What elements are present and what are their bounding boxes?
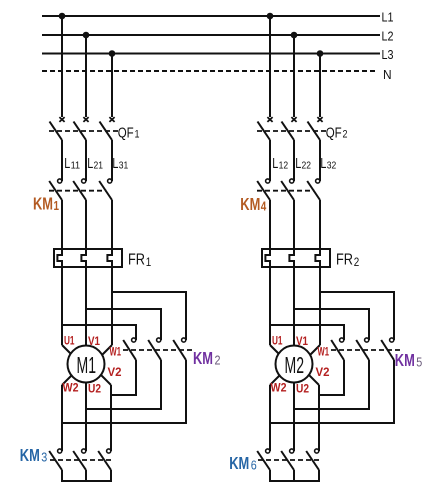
svg-text:M1: M1	[77, 352, 97, 378]
circuit breaker QF1 pole 3 blade	[100, 122, 113, 141]
svg-text:W1: W1	[318, 345, 330, 359]
bus line N (neutral, dashed)	[42, 70, 378, 72]
contactor KM5 pole 2 fixed contact circle	[365, 338, 369, 342]
svg-text:U2: U2	[296, 382, 309, 396]
label KM4	[240, 194, 266, 214]
wire KM4 pole 2 to FR2 heater 2	[293, 200, 295, 249]
svg-text:FR: FR	[128, 252, 145, 269]
wire KM6 pole 3 to star bar	[318, 470, 320, 481]
contactor KM4 pole 2 fixed contact circle	[290, 179, 294, 183]
svg-text:KM: KM	[229, 453, 249, 473]
wire KM5 pole 1 to motor terminal V2	[319, 360, 344, 395]
contactor KM5 pole 1 blade	[331, 340, 344, 360]
svg-text:QF: QF	[118, 125, 134, 142]
circuit breaker QF2 pole 3 blade	[308, 122, 321, 141]
contactor KM4 pole 2 blade	[281, 181, 294, 200]
circuit breaker QF1 pole 2 blade	[74, 122, 87, 141]
contactor KM5 pole 1 fixed contact circle	[340, 338, 344, 342]
wire QF2 pole 2 to KM4 pole 2	[293, 140, 295, 181]
svg-text:V2: V2	[108, 365, 122, 379]
wire KM4 pole 1 to FR2 heater 1	[269, 200, 271, 249]
svg-text:11: 11	[71, 161, 81, 172]
svg-text:1: 1	[146, 255, 152, 269]
svg-text:12: 12	[279, 161, 289, 172]
terminal label L32	[320, 155, 336, 172]
contactor KM6 pole 2 fixed contact circle	[290, 449, 294, 453]
svg-text:5: 5	[416, 355, 422, 370]
motor M1 body	[68, 346, 105, 383]
svg-text:L: L	[295, 155, 301, 172]
svg-text:KM: KM	[240, 194, 260, 214]
svg-text:V2: V2	[316, 365, 330, 379]
thermal relay FR1 box	[54, 249, 122, 267]
FR1 heater element 3	[107, 249, 112, 267]
contactor KM6 pole 3 fixed contact circle	[315, 449, 319, 453]
contactor KM2 pole 1 blade	[123, 340, 136, 360]
contactor KM6 pole 1 fixed contact circle	[266, 449, 270, 453]
contactor KM6 pole 3 blade	[306, 451, 319, 470]
contactor KM3 pole 1 fixed contact circle	[58, 449, 62, 453]
svg-text:L: L	[87, 155, 93, 172]
QF1 common trip linkage (dashed)	[49, 130, 118, 132]
contactor KM3 pole 2 blade	[73, 451, 86, 470]
wire motor M2 U2 to KM6 pole 2	[293, 383, 295, 451]
motor M2 terminal stub V2	[306, 372, 319, 385]
wire FR1 heater 1 to motor M1 terminal U1	[61, 267, 63, 345]
svg-text:U1: U1	[272, 334, 283, 348]
FR2 heater element 3	[315, 249, 320, 267]
node: tap phase C to KM5 pole 3	[320, 292, 394, 340]
star point bar (KM6)	[269, 480, 320, 482]
svg-text:2: 2	[354, 255, 360, 269]
contactor KM2 pole 3 fixed contact circle	[182, 338, 186, 342]
contactor KM3 pole 1 blade	[49, 451, 62, 470]
wire L1 down to QF1 pole 1	[61, 16, 63, 117]
KM2 linkage (dashed)	[123, 349, 192, 351]
terminal label L12	[272, 155, 288, 172]
QF2 common trip linkage (dashed)	[257, 130, 326, 132]
wire motor M1 V2 to KM3 pole 3	[110, 385, 112, 451]
wire L3 down to QF1 pole 3	[111, 54, 113, 118]
FR2 heater element 1	[265, 249, 270, 267]
circuit breaker QF1 pole 1 blade	[50, 122, 63, 141]
junction dot on L1 (branch 1 phase A)	[59, 13, 66, 20]
svg-text:6: 6	[251, 458, 257, 473]
FR1 heater element 2	[81, 249, 86, 267]
svg-text:KM: KM	[20, 445, 40, 465]
motor M2 terminal stub W2	[270, 372, 283, 385]
wire KM1 pole 1 to FR1 heater 1	[61, 200, 63, 249]
wire QF1 pole 1 to KM1 pole 1	[61, 140, 63, 181]
svg-text:4: 4	[261, 200, 267, 214]
label FR1	[128, 252, 151, 270]
svg-text:L: L	[272, 155, 278, 172]
motor M1 terminal stub W2	[62, 372, 75, 385]
contactor KM2 pole 1 fixed contact circle	[132, 338, 136, 342]
circuit breaker QF2 pole 2 blade	[282, 122, 295, 141]
label KM5	[395, 350, 423, 370]
circuit breaker QF2 pole 2 fixed contact x-mark	[291, 117, 296, 122]
svg-text:32: 32	[327, 161, 337, 172]
circuit breaker QF1 pole 1 fixed contact x-mark	[59, 117, 64, 122]
svg-text:V1: V1	[296, 334, 308, 348]
bus line L1	[42, 15, 380, 17]
motor M1 terminal stub V2	[98, 372, 111, 385]
label KM2	[193, 348, 221, 368]
svg-text:21: 21	[94, 161, 104, 172]
KM6 linkage (dashed)	[258, 459, 320, 461]
contactor KM2 pole 2 blade	[148, 340, 161, 360]
junction dot on L3 (branch 1 phase C)	[109, 50, 116, 57]
wire QF2 pole 1 to KM4 pole 1	[269, 140, 271, 181]
motor M2 terminal stub U1	[270, 345, 283, 358]
contactor KM1 pole 1 fixed contact circle	[58, 179, 62, 183]
contactor KM1 pole 1 blade	[49, 181, 62, 200]
wire FR1 heater 2 to motor M1 terminal V1	[85, 267, 87, 346]
wire L1 down to QF2 pole 1	[269, 16, 271, 117]
contactor KM1 pole 3 blade	[99, 181, 112, 200]
wire KM1 pole 3 to FR1 heater 3	[111, 200, 113, 249]
wire QF1 pole 3 to KM1 pole 3	[111, 140, 113, 181]
contactor KM5 pole 3 blade	[381, 340, 394, 360]
wire KM2 pole 1 to motor terminal V2	[111, 360, 136, 395]
wire KM5 pole 2 to motor terminal U2	[294, 360, 369, 409]
svg-text:U2: U2	[88, 382, 101, 396]
junction dot on L3 (branch 2 phase C)	[317, 50, 324, 57]
junction dot on L2 (branch 1 phase B)	[83, 32, 90, 39]
svg-text:W2: W2	[271, 381, 287, 395]
wire FR2 heater 2 to motor M2 terminal V1	[293, 267, 295, 346]
contactor KM4 pole 1 blade	[257, 181, 270, 200]
label KM1	[33, 194, 59, 214]
contactor KM3 pole 2 fixed contact circle	[82, 449, 86, 453]
contactor KM4 pole 3 fixed contact circle	[316, 179, 320, 183]
svg-text:L: L	[112, 155, 118, 172]
svg-text:3: 3	[41, 450, 47, 465]
bus line L3	[42, 53, 380, 55]
motor M1 terminal stub U1	[62, 345, 75, 358]
FR2 heater element 2	[289, 249, 294, 267]
svg-text:L1: L1	[382, 10, 394, 25]
svg-text:2: 2	[343, 129, 348, 141]
svg-text:KM: KM	[193, 348, 213, 368]
circuit breaker QF2 pole 1 blade	[258, 122, 271, 141]
wire L3 down to QF2 pole 3	[319, 54, 321, 118]
wire QF2 pole 3 to KM4 pole 3	[319, 140, 321, 181]
contactor KM6 pole 2 blade	[281, 451, 294, 470]
KM1 linkage (dashed)	[49, 190, 107, 192]
motor M2 body	[276, 346, 313, 383]
wire KM3 pole 1 to star bar	[61, 470, 63, 481]
contactor KM6 pole 1 blade	[257, 451, 270, 470]
star point bar (KM3)	[61, 480, 112, 482]
wire motor M2 V2 to KM6 pole 3	[318, 385, 320, 451]
wire motor M1 U2 to KM3 pole 2	[85, 383, 87, 451]
svg-text:QF: QF	[326, 125, 342, 142]
wire KM4 pole 3 to FR2 heater 3	[319, 200, 321, 249]
wire KM3 pole 2 to star bar	[85, 470, 87, 481]
motor M2 terminal stub W1	[307, 345, 321, 359]
terminal label L22	[295, 155, 311, 172]
svg-text:31: 31	[119, 161, 129, 172]
circuit breaker QF2 pole 1 fixed contact x-mark	[267, 117, 272, 122]
svg-text:KM: KM	[395, 350, 415, 370]
svg-text:2: 2	[215, 353, 221, 368]
label QF1	[118, 125, 140, 142]
wire motor M1 W2 to KM3 pole 1	[61, 385, 63, 451]
label FR2	[336, 252, 359, 270]
svg-text:U1: U1	[64, 334, 75, 348]
label QF2	[326, 125, 348, 142]
contactor KM4 pole 3 blade	[307, 181, 320, 200]
contactor KM3 pole 3 blade	[98, 451, 111, 470]
thermal relay FR2 box	[262, 249, 330, 267]
svg-text:FR: FR	[336, 252, 353, 269]
svg-text:L: L	[64, 155, 70, 172]
contactor KM1 pole 2 fixed contact circle	[82, 179, 86, 183]
KM5 linkage (dashed)	[331, 349, 400, 351]
wire KM1 pole 2 to FR1 heater 2	[85, 200, 87, 249]
svg-text:W2: W2	[63, 381, 79, 395]
node: tap phase A to KM5 pole 1	[270, 325, 344, 340]
svg-text:1: 1	[135, 129, 140, 141]
svg-text:M2: M2	[285, 352, 305, 378]
label KM6	[229, 453, 257, 473]
node: tap phase A to KM2 pole 1	[62, 325, 136, 340]
wire FR2 heater 1 to motor M2 terminal U1	[269, 267, 271, 345]
wire FR2 heater 3 to motor M2 terminal W1	[319, 267, 321, 345]
wire KM2 pole 3 to motor terminal W2	[62, 360, 186, 423]
motor M1 terminal stub W1	[99, 345, 113, 359]
node: tap phase C to KM2 pole 3	[112, 292, 186, 340]
contactor KM5 pole 3 fixed contact circle	[390, 338, 394, 342]
wire KM5 pole 3 to motor terminal W2	[270, 360, 394, 423]
wire QF1 pole 2 to KM1 pole 2	[85, 140, 87, 181]
contactor KM5 pole 2 blade	[356, 340, 369, 360]
circuit breaker QF1 pole 2 fixed contact x-mark	[83, 117, 88, 122]
circuit breaker QF1 pole 3 fixed contact x-mark	[109, 117, 114, 122]
terminal label L31	[112, 155, 128, 172]
node: tap phase B to KM5 pole 2	[294, 309, 369, 340]
node: tap phase B to KM2 pole 2	[86, 309, 161, 340]
svg-text:V1: V1	[88, 334, 100, 348]
circuit breaker QF2 pole 3 fixed contact x-mark	[317, 117, 322, 122]
FR1 heater element 1	[57, 249, 62, 267]
svg-text:L3: L3	[382, 47, 394, 62]
svg-text:KM: KM	[33, 194, 53, 214]
label KM3	[20, 445, 48, 465]
svg-text:L2: L2	[382, 29, 394, 44]
contactor KM3 pole 3 fixed contact circle	[107, 449, 111, 453]
svg-text:N: N	[383, 67, 392, 82]
wire motor M2 W2 to KM6 pole 1	[269, 385, 271, 451]
svg-text:W1: W1	[110, 345, 122, 359]
KM4 linkage (dashed)	[257, 190, 315, 192]
svg-text:1: 1	[54, 199, 60, 213]
contactor KM1 pole 3 fixed contact circle	[108, 179, 112, 183]
contactor KM2 pole 3 blade	[173, 340, 186, 360]
wire FR1 heater 3 to motor M1 terminal W1	[111, 267, 113, 345]
wire KM6 pole 1 to star bar	[269, 470, 271, 481]
terminal label L11	[64, 155, 80, 172]
wire L2 down to QF2 pole 2	[293, 35, 295, 117]
wire KM3 pole 3 to star bar	[110, 470, 112, 481]
contactor KM1 pole 2 blade	[73, 181, 86, 200]
KM3 linkage (dashed)	[50, 459, 112, 461]
junction dot on L2 (branch 2 phase B)	[291, 32, 298, 39]
wire L2 down to QF1 pole 2	[85, 35, 87, 117]
wire KM2 pole 2 to motor terminal U2	[86, 360, 161, 409]
wire KM6 pole 2 to star bar	[293, 470, 295, 481]
svg-text:L: L	[320, 155, 326, 172]
contactor KM2 pole 2 fixed contact circle	[157, 338, 161, 342]
contactor KM4 pole 1 fixed contact circle	[266, 179, 270, 183]
junction dot on L1 (branch 2 phase A)	[267, 13, 274, 20]
bus line L2	[42, 34, 380, 36]
terminal label L21	[87, 155, 103, 172]
svg-text:22: 22	[302, 161, 312, 172]
